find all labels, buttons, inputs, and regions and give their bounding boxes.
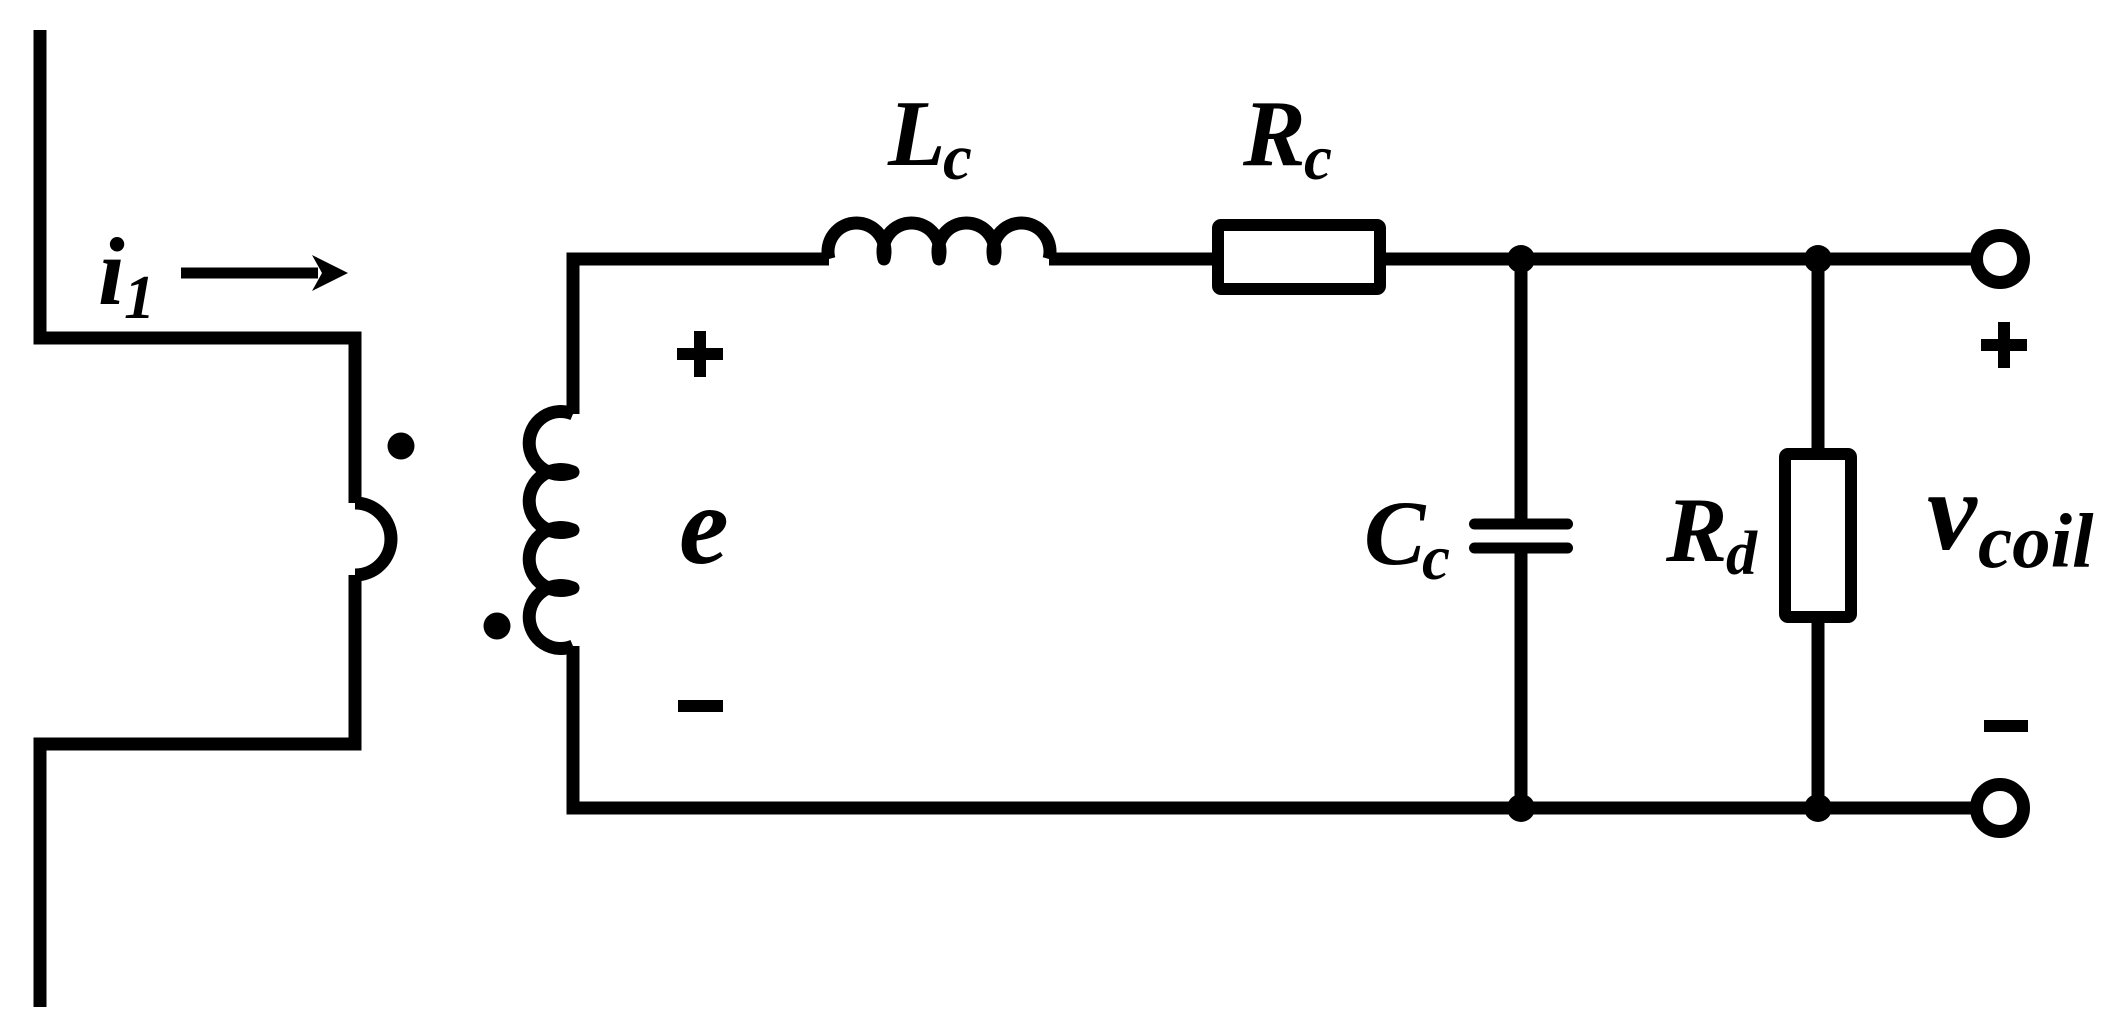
minus sign output <box>1984 720 2028 732</box>
node bottom of Rd <box>1804 794 1832 822</box>
plus sign output <box>1981 322 2027 368</box>
wire capacitor Cc top branch <box>1515 259 1528 524</box>
svg-text:1: 1 <box>124 264 155 332</box>
svg-text:d: d <box>1726 520 1758 588</box>
wire capacitor Cc bottom branch <box>1515 548 1528 808</box>
svg-text:i: i <box>98 218 125 325</box>
wire secondary bottom lead and bottom rail <box>573 646 1979 808</box>
svg-text:c: c <box>943 122 972 194</box>
capacitor Cc plates <box>1475 519 1568 530</box>
svg-text:c: c <box>1422 523 1450 593</box>
minus sign e polarity <box>678 700 723 712</box>
polarity dot primary <box>388 433 415 460</box>
svg-text:coil: coil <box>1978 498 2094 584</box>
node top of Rd <box>1804 245 1832 273</box>
wire Rd branch <box>1812 259 1825 808</box>
transformer primary winding (single-turn hump) <box>355 503 391 575</box>
svg-text:R: R <box>1242 82 1306 186</box>
resistor Rc <box>1218 225 1380 289</box>
resistor Rd <box>1785 454 1851 617</box>
wire primary return lead <box>40 575 355 1007</box>
svg-text:R: R <box>1665 479 1727 581</box>
wire secondary top lead to top rail <box>573 259 829 414</box>
polarity dot secondary <box>484 613 511 640</box>
node top of Cc <box>1507 245 1535 273</box>
terminal T minus <box>1977 785 2024 832</box>
svg-text:e: e <box>679 464 729 588</box>
plus sign e polarity <box>677 331 723 377</box>
svg-text:C: C <box>1364 482 1427 584</box>
transformer secondary winding Ls (4 turns) <box>529 411 573 648</box>
wire primary input lead <box>40 30 355 503</box>
current arrow i1 <box>181 255 348 291</box>
svg-text:v: v <box>1927 450 1978 574</box>
svg-text:L: L <box>887 82 945 186</box>
wire top rail <box>1049 253 1979 266</box>
node bottom of Cc <box>1507 794 1535 822</box>
terminal T plus <box>1977 236 2024 283</box>
svg-text:c: c <box>1304 123 1332 193</box>
inductor Lc (4 humps) <box>828 223 1050 259</box>
